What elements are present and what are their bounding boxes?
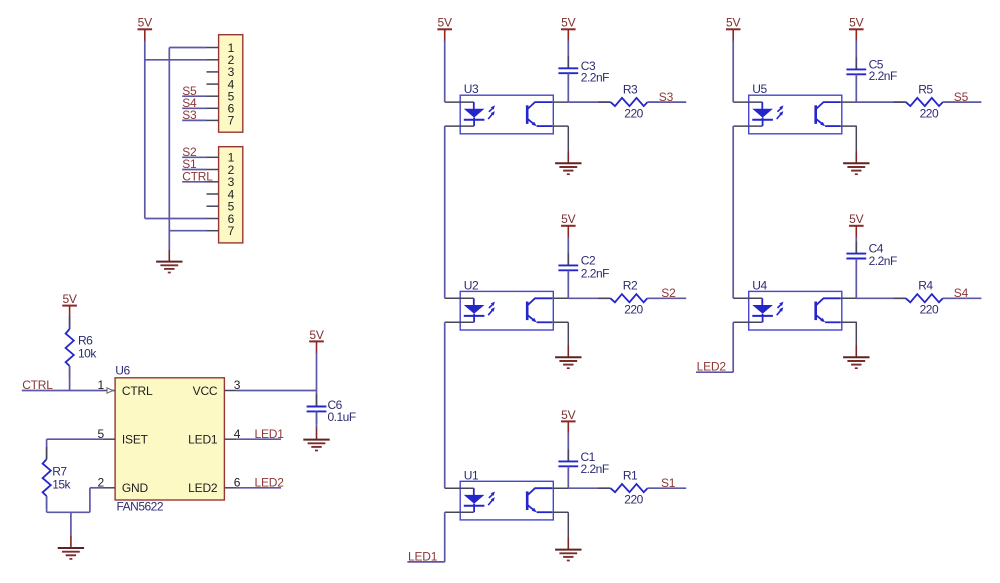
svg-text:220: 220	[920, 303, 939, 317]
svg-text:R6: R6	[78, 334, 93, 348]
svg-text:FAN5622: FAN5622	[117, 500, 164, 514]
svg-text:LED1: LED1	[408, 549, 438, 563]
svg-text:15k: 15k	[52, 477, 71, 491]
svg-text:5V: 5V	[561, 408, 575, 422]
svg-text:LED2: LED2	[188, 481, 218, 495]
svg-text:5V: 5V	[561, 16, 575, 30]
svg-text:GND: GND	[122, 481, 149, 495]
svg-text:LED1: LED1	[188, 433, 218, 447]
svg-text:5V: 5V	[849, 212, 863, 226]
svg-text:5V: 5V	[849, 16, 863, 30]
svg-text:S2: S2	[661, 286, 676, 300]
svg-text:U5: U5	[752, 82, 767, 96]
svg-text:220: 220	[624, 106, 643, 120]
svg-text:S1: S1	[661, 476, 676, 490]
svg-text:R5: R5	[918, 83, 933, 97]
svg-text:5V: 5V	[726, 16, 740, 30]
svg-text:5V: 5V	[62, 292, 76, 306]
svg-text:2.2nF: 2.2nF	[581, 71, 609, 85]
svg-text:U3: U3	[464, 82, 479, 96]
svg-text:0.1uF: 0.1uF	[328, 410, 356, 424]
svg-text:2.2nF: 2.2nF	[869, 69, 897, 83]
svg-text:2.2nF: 2.2nF	[581, 462, 609, 476]
svg-text:R1: R1	[623, 469, 638, 483]
svg-text:ISET: ISET	[122, 433, 149, 447]
svg-text:CTRL: CTRL	[122, 384, 153, 398]
svg-text:220: 220	[624, 493, 643, 507]
svg-text:LED1: LED1	[255, 427, 285, 441]
svg-text:S4: S4	[954, 286, 969, 300]
svg-text:5V: 5V	[138, 16, 152, 30]
svg-text:LED2: LED2	[255, 476, 285, 490]
svg-text:U2: U2	[464, 278, 479, 292]
svg-text:2.2nF: 2.2nF	[869, 254, 897, 268]
svg-text:CTRL: CTRL	[182, 170, 213, 184]
svg-text:R3: R3	[623, 83, 638, 97]
svg-text:5V: 5V	[309, 328, 323, 342]
svg-text:U6: U6	[115, 364, 130, 378]
svg-text:S3: S3	[182, 108, 197, 122]
svg-text:R2: R2	[623, 279, 638, 293]
svg-text:7: 7	[228, 224, 235, 238]
svg-text:220: 220	[920, 106, 939, 120]
svg-text:LED2: LED2	[697, 360, 727, 374]
svg-text:5V: 5V	[438, 16, 452, 30]
svg-text:R4: R4	[918, 279, 933, 293]
svg-text:R7: R7	[52, 465, 67, 479]
svg-text:S3: S3	[659, 90, 674, 104]
svg-text:7: 7	[228, 114, 235, 128]
svg-text:S5: S5	[954, 90, 969, 104]
svg-text:C2: C2	[581, 253, 596, 267]
svg-text:2.2nF: 2.2nF	[581, 266, 609, 280]
svg-text:VCC: VCC	[193, 384, 218, 398]
svg-text:10k: 10k	[78, 347, 97, 361]
svg-text:U1: U1	[464, 468, 479, 482]
svg-text:U4: U4	[752, 278, 767, 292]
svg-text:5V: 5V	[561, 212, 575, 226]
svg-text:220: 220	[624, 303, 643, 317]
